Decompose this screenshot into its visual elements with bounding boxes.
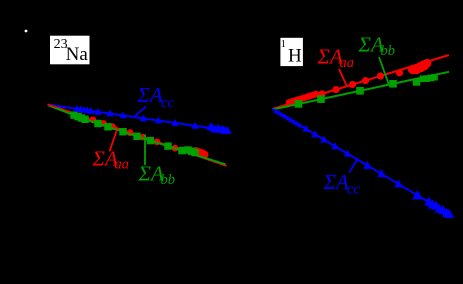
H panel: green square data markers [295, 74, 438, 108]
H panel: red fit line Aaa [273, 55, 450, 109]
svg-text:bb: bb [381, 43, 396, 59]
Na panel: pointer line to Acc [134, 107, 146, 118]
Na panel: pointer line to Aaa [110, 130, 118, 152]
svg-text:bb: bb [161, 172, 176, 188]
Na panel: red circle data markers [90, 117, 209, 159]
Na panel: blue triangle data markers [73, 105, 231, 134]
H panel: red circle data markers [286, 59, 432, 106]
svg-text:aa: aa [340, 55, 355, 71]
H panel: blue triangle data markers [273, 108, 454, 218]
svg-text:aa: aa [115, 157, 130, 173]
Na panel: green square data markers [70, 111, 198, 156]
Na panel: blue fit line Acc [48, 105, 230, 131]
H panel: pointer line to Aaa [339, 69, 347, 87]
H panel: white isotope label box 1H [280, 38, 303, 66]
Na panel: red fit line Aaa [48, 104, 227, 166]
Na panel: white isotope label box 23Na [50, 36, 90, 65]
svg-text:cc: cc [161, 95, 174, 111]
stray white dot [25, 30, 28, 33]
Na panel: green fit line Abb [48, 105, 226, 164]
svg-text:1: 1 [281, 39, 286, 50]
Na panel: pointer line to Abb [144, 135, 146, 166]
Na panel: red line tip overlay [48, 104, 58, 107]
H panel: blue fit line Acc [273, 109, 454, 217]
svg-text:ΣA: ΣA [137, 83, 163, 107]
H panel: green fit line Abb [273, 72, 450, 110]
svg-text:H: H [288, 46, 302, 67]
svg-text:Na: Na [66, 44, 89, 65]
svg-text:ΣA: ΣA [323, 170, 349, 194]
H panel: pointer line to Acc [349, 160, 358, 173]
svg-text:cc: cc [347, 182, 360, 198]
H panel: pointer line to Abb [379, 57, 389, 85]
